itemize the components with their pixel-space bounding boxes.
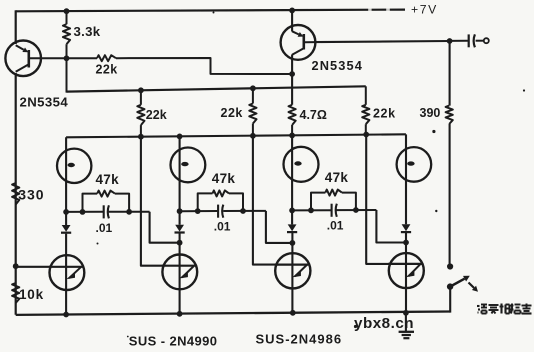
capacitor C3 .01 (331, 204, 333, 217)
node lamp line / lamp L2 (177, 134, 183, 140)
lamp L2 (171, 148, 206, 183)
capacitor C2 .01 (217, 205, 219, 218)
svg-text:ybx8.cn: ybx8.cn (354, 315, 414, 332)
resistor R 22k horizontal (67, 57, 98, 59)
speck (435, 210, 437, 212)
diode D2 (175, 225, 184, 232)
node top rail / 3.3k junction (64, 8, 70, 14)
switch SW: motion arrow (469, 283, 474, 288)
node cell2 below diode (177, 240, 183, 246)
speck (97, 243, 99, 245)
lamp L3 (284, 147, 319, 182)
svg-text:.01: .01 (214, 220, 231, 234)
node 47k#3 right (353, 207, 359, 213)
lamp L4 (397, 147, 432, 182)
node bus/cell1 (63, 312, 69, 318)
wire cell3 vertical (diode to bottom bus) (291, 233, 293, 313)
resistor R 22k #1 vertical (140, 90, 142, 105)
node bus/cell3 (290, 310, 296, 316)
resistor R 10k (12, 283, 19, 303)
svg-text:22k: 22k (146, 108, 167, 122)
SUS S2 (162, 255, 197, 290)
svg-text:47k: 47k (325, 170, 349, 185)
diode D4 (402, 224, 411, 231)
wire top +7V rail (16, 10, 405, 12)
node middle bus / 22k #1 (138, 87, 144, 93)
diode D1 (62, 225, 71, 232)
transistor Q1 2N5354 (5, 41, 41, 77)
resistor R 3.3k (66, 10, 68, 24)
wire cell1 cap line (66, 211, 103, 213)
wire middle bus (67, 86, 366, 91)
wire cell1 vertical (diode to bottom bus) (65, 234, 67, 315)
SUS S3 (275, 253, 310, 288)
lamp L1 (57, 149, 91, 183)
node cell2 cap line left (177, 208, 183, 214)
resistor R 390 (446, 106, 453, 124)
svg-text:.01: .01 (96, 221, 113, 235)
node lamp line / 22k #2 (250, 133, 256, 139)
resistor R 22k #3 vertical (362, 105, 369, 124)
wire cell3 cap line (292, 209, 331, 211)
svg-text:47k: 47k (96, 172, 120, 187)
speck (354, 325, 357, 328)
diode D3 (288, 224, 297, 231)
terminal output (484, 38, 489, 43)
wire gate feed SUS4 (from 22k #3) (366, 135, 390, 264)
node 47k#2 right (240, 208, 246, 214)
svg-text:2N5354: 2N5354 (20, 95, 69, 110)
node output junction (447, 38, 453, 44)
transistor Q2 2N5354 (291, 10, 293, 31)
wire rail break artifacts (scan) (368, 8, 371, 11)
node cell3 below diode (290, 240, 296, 246)
wire 22k to Q2 base (stepped) (116, 58, 292, 74)
speck (523, 89, 525, 91)
svg-text:22k: 22k (96, 62, 118, 76)
svg-text:22k: 22k (373, 107, 396, 121)
node middle bus / 22k #2 (250, 85, 256, 91)
svg-text:4.7Ω: 4.7Ω (300, 108, 327, 122)
switch SW: lever (450, 279, 464, 287)
resistor R 47k #2 loop (198, 193, 213, 211)
svg-text:+7V: +7V (411, 3, 438, 17)
node Q2 base junction (289, 71, 295, 77)
node 47k#1 right (126, 209, 132, 215)
wire gate feed SUS1 (from divider) (16, 266, 50, 268)
node bus/cell4+ground (403, 310, 409, 316)
wire switch to bottom bus (449, 287, 451, 313)
wire cell2 vertical (diode to bottom bus) (179, 233, 181, 314)
node cell3 cap line left (289, 208, 295, 214)
wire gate feed SUS2 (from 22k #1) (141, 137, 164, 266)
speck (213, 12, 215, 14)
wire cell4 vertical (lamp line to diode) (405, 134, 407, 224)
SUS S1 2N4990 (50, 255, 85, 290)
node 47k#1 left (80, 209, 86, 215)
SUS S4 2N4986 (389, 253, 424, 288)
node top rail / Q2 collector junction (289, 7, 295, 13)
node base junction Q1/3.3k/22k (64, 55, 70, 61)
speck (432, 130, 435, 133)
wire lamp supply line (66, 134, 406, 137)
wire 3.3k bottom down to middle bus (66, 58, 68, 92)
node 47k#3 left (308, 207, 314, 213)
switch SW clear/set: top contact (447, 263, 453, 269)
wire cell2 vertical (lamp line to diode) (179, 136, 181, 224)
node lamp line / 22k #1 (138, 134, 144, 140)
switch SW: pole contact (447, 283, 453, 289)
svg-text:390: 390 (420, 106, 441, 120)
label qingling-he-shezhi (clear & set, CJK strokes) (477, 305, 480, 307)
wire left rail upper (Q1 emitter lead) (15, 10, 17, 44)
resistor R 4.7ohm (289, 105, 296, 125)
speck (127, 336, 129, 338)
node bus/cell2 (177, 311, 183, 317)
capacitor C1 .01 (103, 205, 105, 218)
wire cell1 to cell2 step (150, 212, 180, 243)
capacitor C output (450, 40, 468, 42)
wire Q2 emitter to output (315, 41, 449, 42)
svg-text:3.3k: 3.3k (74, 24, 101, 39)
node 47k#2 left (195, 208, 201, 214)
wire gate feed SUS3 (from 22k #2) (253, 136, 276, 265)
resistor R 330 (12, 183, 19, 205)
node lamp line / 22k #3 (363, 132, 369, 138)
resistor R 47k #3 loop (311, 193, 325, 211)
wire cell2 to cell3 step (266, 211, 293, 243)
wire cell3 to cell4 step (376, 210, 406, 243)
resistor R 22k #2 vertical (252, 88, 254, 103)
svg-text:22k: 22k (221, 106, 243, 120)
svg-text:10k: 10k (19, 287, 44, 302)
node cell1 cap line left (63, 209, 69, 215)
svg-text:330: 330 (18, 186, 44, 202)
resistor R 47k #1 loop (83, 194, 98, 212)
node cell4 below diode (403, 240, 409, 246)
svg-text:47k: 47k (212, 171, 236, 186)
wire left rail lower (Q1 collector to bottom bus) (15, 73, 17, 315)
node lamp line / lamp L3 + 4.7ohm (289, 133, 295, 139)
node 330/10k divider junction (13, 263, 19, 269)
svg-text:SUS-2N4986: SUS-2N4986 (256, 331, 343, 346)
svg-text:2N5354: 2N5354 (312, 58, 363, 73)
svg-text:.01: .01 (327, 219, 344, 233)
wire cell4 vertical (diode to bottom bus) (405, 233, 407, 313)
wire middle bus right corner down (365, 86, 367, 105)
ground (405, 313, 407, 332)
wire 390 to switch (449, 124, 451, 267)
wire cell1 vertical (lamp line to diode) (65, 137, 67, 225)
wire cell3 vertical (lamp line to diode) (291, 135, 293, 224)
wire bottom bus (16, 312, 451, 315)
svg-text:SUS - 2N4990: SUS - 2N4990 (129, 334, 218, 349)
wire right rail down to 390 (449, 41, 451, 106)
wire cell2 cap line (180, 210, 218, 212)
